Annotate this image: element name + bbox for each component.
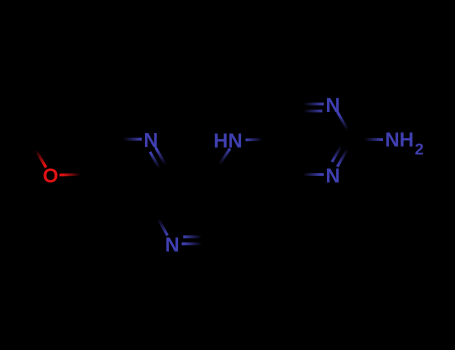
svg-text:N: N [326,165,340,187]
bond C2-C3 [212,209,233,244]
svg-text:HN: HN [214,131,243,153]
double bond C3=C4 [210,174,234,209]
bond N1-C2 pyrimidine [337,112,353,139]
bond C4-NH linker [213,149,230,175]
double bond N1=C2 [182,237,213,244]
svg-text:N: N [144,130,158,152]
bond N3-C6 pyrimidine [292,173,324,176]
bond C6-N5 [112,138,142,141]
bond O-CH3 methyl [30,140,46,167]
bond O-C7 methoxy [60,173,92,177]
fusion bond C4a-C8a [153,174,171,209]
double bond C6=C5 pyrimidine [272,139,296,174]
double bond C4=N1 pyrimidine [292,104,324,111]
double bond C7=C6 [92,139,116,174]
svg-text:2: 2 [415,142,424,159]
bond NH-C5 pyrimidine [246,138,272,141]
bond C8a-N1 [153,209,168,236]
double bond C2=N3 pyrimidine [332,139,353,167]
svg-text:N: N [326,95,340,117]
double bond N5=C4a [150,147,171,174]
double bond C8=C8a [112,202,152,209]
bond C5-C4 pyrimidine [272,104,292,139]
bond C7-C8 [92,174,112,209]
bond C2-NH2 [353,138,383,141]
svg-text:NH: NH [385,130,414,152]
svg-text:N: N [165,235,179,257]
bond C4-C4a [171,172,213,175]
svg-text:O: O [43,166,59,188]
